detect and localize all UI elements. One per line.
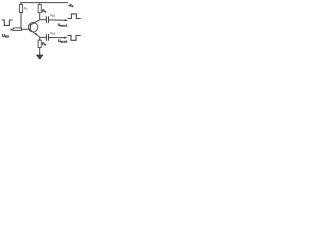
transistor emitter arrow [35, 33, 38, 35]
wire emitter node to capacitor Ср2 [40, 36, 46, 38]
capacitor Ср2 [45, 34, 47, 41]
wire collector node to capacitor Ср1 [40, 19, 46, 21]
transistor VT1 [28, 23, 38, 33]
wire Rк bottom to collector node [39, 13, 41, 20]
wire Ср1 to output 1 [49, 19, 65, 21]
svg-text:Uвх: Uвх [2, 33, 9, 39]
wire Rб bottom to base node [20, 13, 22, 30]
capacitor Ср1 [45, 16, 47, 23]
svg-text:Cр1: Cр1 [50, 13, 56, 17]
wire base node to transistor base [21, 28, 30, 30]
output arrow Uвых2 [64, 37, 67, 39]
wire Ср2 to output 2 [49, 37, 65, 39]
output waveform 2 (negative pulse) [68, 36, 81, 41]
svg-text:Rк: Rк [42, 9, 47, 14]
svg-text:-Eк: -Eк [68, 4, 74, 9]
input arrow [11, 29, 14, 31]
svg-text:Rэ: Rэ [42, 42, 47, 47]
svg-text:Uвых2: Uвых2 [58, 39, 68, 44]
resistor Rэ [38, 40, 41, 47]
resistor Rб [19, 5, 22, 13]
wire Rэ bottom to ground [39, 48, 41, 56]
resistor Rк [38, 5, 41, 13]
resistor R1 (series base resistor) [13, 28, 21, 31]
wire Rб top to rail [20, 3, 22, 5]
svg-text:Rб: Rб [24, 7, 28, 12]
output waveform 1 (positive pulse) [68, 14, 81, 19]
output arrow Uвых1 [65, 19, 68, 21]
wire emitter node down to Rэ [39, 37, 41, 40]
wire rail to Rк top [39, 3, 41, 5]
input waveform (negative pulse) [2, 20, 13, 25]
ground [36, 54, 43, 56]
svg-text:Uвых1: Uвых1 [58, 23, 68, 28]
svg-text:Cр2: Cр2 [50, 31, 56, 35]
wire top supply rail [20, 2, 68, 4]
